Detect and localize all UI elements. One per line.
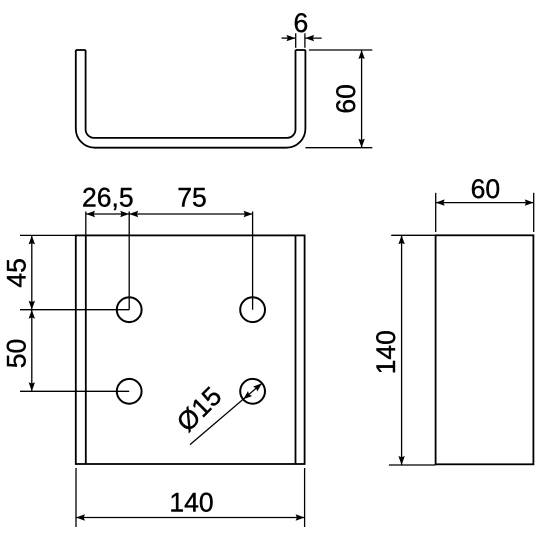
dim 26,5 / 75: back-to-back arrows at shared extension xyxy=(120,211,129,217)
svg-text:6: 6 xyxy=(294,8,309,38)
front view: plate top edge extension to the left (for dim 45) xyxy=(20,234,76,236)
leader line for Ø15 xyxy=(190,383,262,444)
dim 60 (top view): dimension line with arrows xyxy=(361,50,363,148)
front view: left bend line xyxy=(85,235,87,464)
extension line: hole row 2 to the left xyxy=(20,390,129,392)
extension line: hole column 2 up to dim line xyxy=(252,212,254,310)
dim 26,5 and 75: dimension line xyxy=(86,213,253,215)
dim 60 (side view): left extension line xyxy=(435,193,437,232)
dim 50: bottom arrow xyxy=(29,382,35,391)
front view: plate outer rectangle xyxy=(76,235,305,464)
dim 6: right dimension line with arrow xyxy=(305,37,322,39)
dim 75: right arrow xyxy=(244,211,253,217)
dim 60 (side view): right extension line xyxy=(533,193,535,232)
dim 45 and 50: dimension line xyxy=(31,235,33,391)
hole bottom-right xyxy=(240,379,265,404)
dim 6: right extension line xyxy=(304,33,306,48)
svg-text:45: 45 xyxy=(2,258,32,287)
svg-text:50: 50 xyxy=(2,339,32,368)
svg-text:60: 60 xyxy=(471,174,500,204)
dim 26,5: left arrow xyxy=(86,211,95,217)
side view rectangle (right view) xyxy=(436,235,534,464)
dim 6: left extension line xyxy=(295,33,297,48)
svg-text:26,5: 26,5 xyxy=(82,183,134,213)
dim 140 (side view): bottom extension line xyxy=(389,464,436,466)
dim 45 / 50: back-to-back arrows at hole row 1 xyxy=(29,301,35,310)
Ø15 leader arrow at far hole edge xyxy=(253,383,262,391)
hole top-left xyxy=(117,297,142,322)
dim 60 (top view): top extension line xyxy=(309,49,372,51)
U-channel profile inner contour (top view) xyxy=(86,50,296,138)
U-channel profile outer contour (top view) xyxy=(76,50,306,148)
hole bottom-left xyxy=(117,379,142,404)
dim 140 (front): dimension line with arrows xyxy=(76,517,305,519)
dim 140 (front): right extension line xyxy=(304,468,306,527)
svg-text:140: 140 xyxy=(169,487,213,517)
svg-text:140: 140 xyxy=(371,330,401,374)
dim 140 (side view): dimension line with arrows xyxy=(401,235,403,465)
dim 6: left dimension line with arrow xyxy=(282,37,296,39)
front view: right bend line xyxy=(295,235,297,464)
svg-text:75: 75 xyxy=(177,183,206,213)
U-channel right wall top cap xyxy=(296,49,306,51)
dim 140 (side view): top extension line xyxy=(391,234,435,236)
extension line: hole column 1 up to dim line xyxy=(128,212,130,310)
dim 45: top arrow xyxy=(29,235,35,244)
hole top-right xyxy=(240,297,265,322)
extension line: hole row 1 to the left xyxy=(20,309,129,311)
extension line: left bend line extended up xyxy=(85,212,87,236)
U-channel left wall top cap xyxy=(76,49,86,51)
dim 140 (front): left extension line xyxy=(75,468,77,527)
Ø15 leader arrow at near hole edge xyxy=(243,391,252,399)
dim 60 (top view): bottom extension line xyxy=(305,147,372,149)
svg-text:60: 60 xyxy=(331,84,361,113)
dim 60 (side view): dimension line with arrows xyxy=(436,202,534,204)
